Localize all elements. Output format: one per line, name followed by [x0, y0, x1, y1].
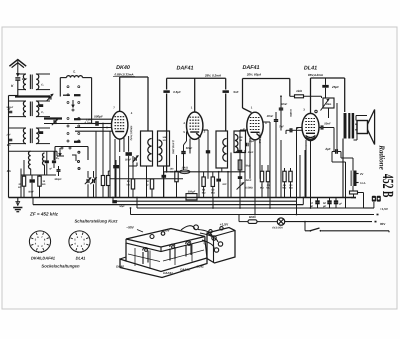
svg-text:600Ω: 600Ω	[249, 215, 257, 219]
transformer oscillator coil	[9, 151, 58, 175]
jack pair dial lamp	[372, 196, 381, 202]
svg-text:MΩ: MΩ	[289, 187, 293, 190]
resistor 0.5M agc	[107, 171, 110, 198]
socket diagram DK40 DAF41	[29, 231, 55, 261]
svg-text:1MΩ: 1MΩ	[326, 103, 331, 106]
wire DAF41 AF pins	[240, 122, 270, 198]
svg-text:DAF41: DAF41	[163, 271, 173, 275]
wire IF1 connections	[141, 166, 164, 198]
wire left vertical rail	[9, 96, 18, 198]
svg-text:25µF: 25µF	[331, 85, 339, 89]
resistor 40k	[101, 176, 104, 198]
tube label DL41	[304, 66, 323, 78]
label +90V chassis	[162, 229, 169, 233]
wire right bottom connections	[373, 202, 375, 208]
wire band bus thick	[15, 97, 62, 119]
capacitor 2uF	[324, 147, 341, 154]
svg-text:2µF: 2µF	[324, 147, 330, 151]
wire osc section	[21, 151, 64, 197]
svg-text:kΩ: kΩ	[170, 170, 173, 173]
label +1.5V battery	[220, 222, 229, 226]
chassis top view drawing	[120, 225, 223, 278]
svg-text:MΩ: MΩ	[266, 187, 270, 190]
svg-text:DL41: DL41	[304, 66, 317, 72]
svg-text:50nF: 50nF	[324, 122, 331, 126]
tube U4 DL41 output	[297, 78, 319, 149]
capacitor C3 pair	[45, 151, 60, 175]
svg-text:Radione: Radione	[378, 144, 387, 170]
wire bus 2a	[112, 197, 296, 202]
resistor 10k on rail	[180, 166, 190, 173]
resistor 1k decoupling	[290, 89, 322, 98]
wire switch block frame	[44, 124, 92, 161]
capacitor 7nF	[279, 124, 302, 134]
wire antenna to coil block	[11, 80, 18, 96]
svg-text:C₂: C₂	[41, 111, 44, 114]
potentiometer 1M tone	[315, 98, 337, 152]
svg-text:Sockelschaltungen: Sockelschaltungen	[41, 264, 80, 269]
svg-text:26V; 0.2mA: 26V; 0.2mA	[204, 74, 221, 78]
transformer IF2 452kHz	[206, 131, 255, 168]
resistor pair 0.3M 1.2M	[202, 172, 215, 198]
switch contacts lower	[72, 151, 80, 169]
svg-text:L: L	[73, 70, 75, 74]
capacitor osc blob	[28, 175, 35, 198]
wire lamp to switch	[304, 221, 306, 231]
tube U2 DAF41 IF amp	[183, 78, 205, 139]
capacitor blob AF	[216, 172, 227, 198]
svg-text:0.5MΩ: 0.5MΩ	[245, 187, 253, 190]
wire bus 2	[33, 197, 304, 205]
label 1.6V 0.7mA	[85, 119, 93, 125]
svg-text:300pF: 300pF	[54, 178, 62, 181]
trimmer capacitor band2	[41, 111, 58, 125]
transformer antenna coil band 1	[18, 74, 50, 90]
coil L oscillator	[60, 70, 91, 124]
svg-text:452 B: 452 B	[379, 174, 396, 198]
svg-text:DK40,DAF41: DK40,DAF41	[31, 256, 56, 261]
trimmer capacitor band1	[41, 84, 53, 101]
battery block drawing	[207, 227, 235, 263]
label 78k vertical	[258, 132, 261, 143]
svg-text:0.1A: 0.1A	[360, 182, 366, 185]
svg-text:C₁: C₁	[41, 84, 44, 87]
label -90V chassis	[126, 225, 143, 232]
tube U1 DK40	[112, 77, 133, 139]
wire right verticals	[240, 135, 318, 198]
svg-text:DAF41: DAF41	[242, 65, 259, 71]
svg-text:7nF: 7nF	[279, 124, 284, 128]
svg-text:DL41: DL41	[196, 264, 204, 268]
wire grid lines to DK40	[75, 119, 112, 131]
svg-text:9nF: 9nF	[233, 90, 238, 94]
resistor 600 ohm	[239, 215, 257, 224]
label 40k 0.7mA vertical	[129, 125, 132, 141]
wire ground bus	[9, 197, 357, 199]
lamp dial	[257, 218, 285, 229]
wire DAF41 pins down	[184, 130, 209, 198]
svg-text:DL41: DL41	[76, 256, 87, 261]
capacitor 50nF grid DAF41	[181, 145, 192, 172]
tube label DAF41 (AF)	[242, 65, 261, 77]
svg-text:(2V)78kΩ: (2V)78kΩ	[258, 132, 261, 143]
svg-text:0.85V,0.33mA: 0.85V,0.33mA	[114, 72, 133, 76]
wire bus 3 filament	[136, 197, 363, 208]
svg-text:DAF41: DAF41	[180, 268, 190, 272]
svg-text:−90V: −90V	[126, 225, 134, 229]
svg-text:Mb: Mb	[7, 169, 11, 173]
svg-text:MΩ: MΩ	[202, 191, 206, 194]
socket diagram DL41	[69, 231, 90, 261]
svg-text:kΩ: kΩ	[163, 139, 166, 142]
svg-text:500pF: 500pF	[188, 190, 196, 193]
tube label DAF41 (IF)	[176, 66, 221, 78]
svg-text:DK40: DK40	[116, 65, 130, 71]
capacitor 9nF	[223, 90, 239, 94]
capacitor 500pF padder	[186, 190, 197, 200]
capacitor 300pF osc	[54, 166, 62, 181]
trimmer IF1	[133, 156, 139, 163]
wire verticals mid	[129, 156, 137, 198]
svg-text:2V: 2V	[360, 172, 364, 176]
labels chassis tubes	[116, 264, 204, 275]
svg-text:+90V: +90V	[162, 229, 169, 233]
svg-text:10kΩ: 10kΩ	[182, 166, 188, 169]
svg-text:DAF41: DAF41	[176, 66, 193, 72]
label 0.1M vertical	[172, 140, 175, 154]
svg-text:+1,5V: +1,5V	[220, 222, 229, 226]
capacitor 1nF antenna coupling	[15, 77, 27, 81]
svg-text:Ω: Ω	[147, 184, 149, 187]
terminal row 3 90V	[285, 222, 385, 227]
svg-text:(2.4V)0.1MΩ: (2.4V)0.1MΩ	[172, 140, 175, 154]
wire IF2 connections	[222, 145, 246, 198]
label 0.5M vertical	[289, 109, 292, 117]
resistor pair 4.5M 0.3M	[282, 168, 293, 198]
resistor 20k osc	[18, 160, 26, 198]
resistor 25k	[127, 156, 135, 198]
svg-text:20V; 60µA: 20V; 60µA	[246, 73, 261, 77]
label Schalterstellung Kurz	[74, 219, 118, 224]
svg-text:1kΩ: 1kΩ	[296, 89, 302, 93]
transformer antenna coil band 3	[9, 128, 51, 144]
tube U3 DAF41 AF amp	[243, 106, 267, 140]
label 90V battery	[203, 238, 206, 244]
svg-text:Schalterstellung Kurz: Schalterstellung Kurz	[74, 219, 118, 224]
wire AF rail	[163, 171, 245, 173]
transformer output	[343, 112, 354, 198]
capacitor 50nF DK40 cathode	[125, 152, 132, 161]
svg-text:1nF: 1nF	[222, 183, 227, 186]
resistor 50 ohm	[146, 179, 154, 198]
svg-text:6V,0.05A: 6V,0.05A	[272, 226, 283, 229]
terminal +1.5V	[358, 193, 388, 211]
logo Radione	[378, 144, 387, 170]
battery 2V cell	[350, 171, 365, 187]
capacitor 25uF cathode	[322, 78, 339, 98]
transformer antenna coil band 2	[9, 101, 51, 117]
wire DAF41 AF anode rail	[243, 79, 290, 113]
svg-text:50nF: 50nF	[186, 146, 193, 150]
band switch contacts	[59, 86, 81, 156]
capacitor 10uF electrolytic 1	[309, 198, 320, 209]
svg-text:+1,5V: +1,5V	[380, 207, 388, 211]
wire af vertical 228	[227, 171, 229, 198]
svg-text:DK40: DK40	[116, 264, 124, 268]
capacitor left rail 1	[9, 111, 13, 140]
capacitor 50nF grid DL41	[319, 122, 334, 152]
wire DAF41 anode rail	[167, 78, 226, 172]
svg-text:−90V: −90V	[203, 238, 206, 244]
svg-text:2nF: 2nF	[6, 134, 12, 137]
svg-text:90V: 90V	[380, 222, 385, 226]
transformer IF1 452kHz	[141, 131, 170, 166]
label ZF 452kHz	[29, 212, 59, 217]
capacitor 50uF electrolytic 2	[322, 198, 332, 209]
wire DK40 pins down	[115, 136, 129, 198]
terminal row 2	[130, 207, 379, 214]
svg-text:50nF: 50nF	[281, 102, 288, 106]
svg-text:500pF: 500pF	[94, 115, 103, 119]
tuning gang capacitor 1	[85, 171, 91, 198]
wire DL41 anode rail	[311, 78, 345, 112]
svg-text:50µF: 50µF	[119, 205, 125, 208]
wire filament drops	[212, 198, 311, 216]
svg-text:MΩ: MΩ	[260, 187, 264, 190]
antenna	[9, 60, 26, 77]
node labels M	[7, 107, 11, 173]
capacitor 50nF blob 2	[113, 160, 119, 198]
resistor 50k det chain	[237, 150, 254, 198]
wire DK40 anode rail	[120, 77, 148, 132]
svg-text:40kΩ(0.7mA): 40kΩ(0.7mA)	[129, 125, 132, 141]
svg-text:20nF: 20nF	[266, 114, 274, 118]
wire DL41 area	[297, 128, 354, 209]
switch S1 on-off	[305, 228, 389, 232]
tuning gang capacitor 2	[90, 171, 96, 198]
capacitor blob AF left	[162, 172, 167, 198]
speaker	[354, 110, 375, 145]
svg-text:MΩ: MΩ	[282, 187, 286, 190]
tube label DK40	[113, 65, 135, 77]
svg-text:µF: µF	[322, 205, 326, 208]
logo 452 B	[379, 174, 396, 198]
capacitor 500pF tuning	[94, 115, 103, 126]
capacitor 0.05uF screen	[163, 90, 181, 94]
svg-text:50nF: 50nF	[28, 191, 34, 194]
svg-text:µF: µF	[338, 203, 342, 206]
label Sockelschaltungen	[41, 264, 80, 269]
capacitor 50nF det	[279, 95, 288, 130]
resistor 1.5k	[38, 175, 46, 198]
resistor 300 ohm	[350, 186, 358, 199]
resistor 100k	[170, 155, 179, 198]
svg-text:kΩ: kΩ	[42, 183, 45, 186]
svg-text:0.5MΩ: 0.5MΩ	[289, 109, 292, 117]
svg-text:500pF: 500pF	[6, 106, 13, 109]
svg-text:22nF: 22nF	[245, 179, 252, 182]
capacitor 50uF blob on bus	[112, 200, 125, 208]
resistor pair 3M 0.5M	[260, 165, 271, 198]
svg-text:0.5µF: 0.5µF	[173, 90, 181, 94]
svg-text:ZF = 452 kHz: ZF = 452 kHz	[29, 212, 59, 217]
svg-text:MΩ: MΩ	[211, 191, 215, 194]
capacitor 50uF electrolytic 3	[334, 198, 343, 209]
wire verticals below switch	[96, 124, 110, 198]
ground symbol	[13, 198, 22, 212]
capacitor blob band2	[39, 104, 43, 134]
wire 178 rail	[107, 178, 213, 180]
capacitor 20nF det	[266, 112, 278, 141]
label 500pF left	[6, 106, 14, 136]
svg-text:85V,4.2mA: 85V,4.2mA	[308, 73, 323, 77]
